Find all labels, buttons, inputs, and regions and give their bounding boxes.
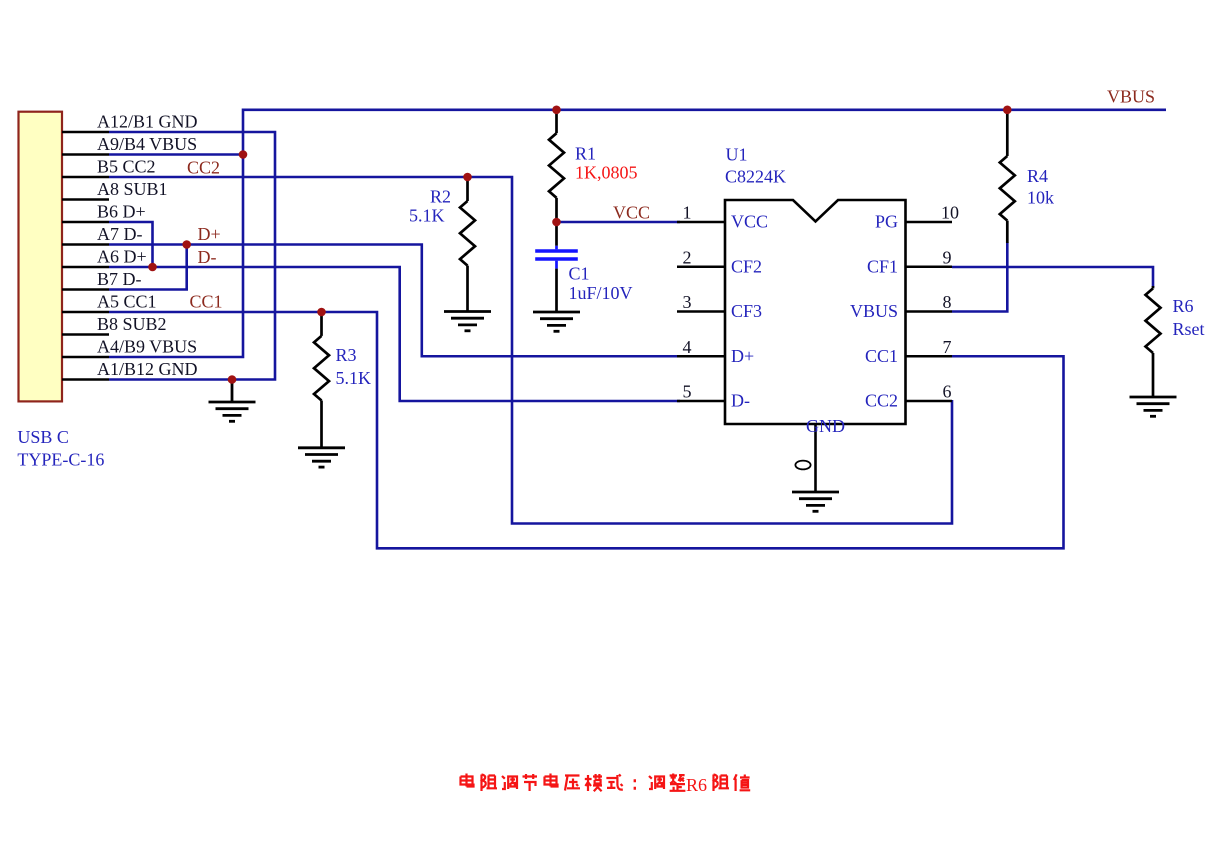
pin A9/B4 VBUS stub	[62, 153, 109, 156]
junction dot VCC/C1	[552, 218, 561, 227]
pin B7 D- stub	[62, 288, 109, 291]
pin 6 stub	[906, 400, 953, 403]
pin 8 stub	[906, 310, 953, 313]
svg-text:R3: R3	[336, 345, 357, 365]
svg-text:TYPE-C-16: TYPE-C-16	[17, 450, 104, 470]
svg-text:B6 D+: B6 D+	[97, 202, 146, 222]
junction dot A9/B4 VBUS	[239, 150, 248, 159]
char zheng	[670, 774, 686, 791]
svg-text:9: 9	[943, 247, 952, 267]
svg-text:A1/B12 GND: A1/B12 GND	[97, 359, 198, 379]
ground at R2	[444, 312, 491, 331]
svg-text:10: 10	[941, 203, 959, 223]
char diao	[502, 776, 517, 789]
wire VBUS pin8 to R4	[952, 242, 1007, 312]
svg-text:A8 SUB1: A8 SUB1	[97, 179, 168, 199]
pin 10 stub	[906, 221, 953, 224]
note red chinese annotation	[461, 774, 751, 792]
svg-text:B7 D-: B7 D-	[97, 269, 142, 289]
svg-text:VBUS: VBUS	[850, 301, 898, 321]
svg-text:R6: R6	[686, 775, 707, 795]
wire VCC net	[557, 221, 681, 224]
svg-text:CC1: CC1	[865, 346, 898, 366]
svg-text:CC2: CC2	[187, 158, 220, 178]
wire VBUS vertical to connector pins	[109, 109, 243, 358]
char dian	[545, 774, 558, 787]
junction dot D+ net	[182, 240, 191, 249]
wire D+ net	[109, 245, 680, 357]
resistor R6	[1146, 286, 1161, 397]
svg-text:A7 D-: A7 D-	[97, 224, 143, 244]
svg-text:VCC: VCC	[613, 203, 650, 223]
resistor R3	[314, 312, 329, 448]
wire CC1 net	[109, 312, 1064, 548]
svg-text:5: 5	[683, 382, 692, 402]
pin A8 SUB1 stub	[62, 198, 109, 201]
pin 1 stub	[677, 221, 725, 224]
svg-text:1uF/10V: 1uF/10V	[569, 283, 633, 303]
pin A6 D+ stub	[62, 266, 109, 269]
wire B7 D- jog	[109, 245, 187, 290]
pin 0 GND stub	[814, 424, 817, 492]
svg-text:A12/B1 GND: A12/B1 GND	[97, 112, 198, 132]
char zu	[482, 775, 498, 792]
pin A7 D- stub	[62, 243, 109, 246]
svg-text:8: 8	[943, 292, 952, 312]
svg-text:4: 4	[683, 337, 692, 357]
pin 3 stub	[677, 310, 725, 313]
svg-text:A9/B4 VBUS: A9/B4 VBUS	[97, 134, 197, 154]
svg-text:1: 1	[683, 203, 692, 223]
char mo	[585, 774, 602, 791]
svg-text:D+: D+	[731, 346, 754, 366]
svg-text:B5 CC2: B5 CC2	[97, 157, 156, 177]
wire A9/B4 VBUS row	[109, 153, 244, 156]
pin B6 D+ stub	[62, 221, 109, 224]
svg-text:CF3: CF3	[731, 301, 762, 321]
pin A1/B12 GND stub	[62, 378, 109, 381]
pin A12/B1 GND stub	[62, 131, 109, 134]
svg-text:R1: R1	[575, 144, 596, 164]
ground at connector GND net	[209, 380, 256, 422]
char shi	[606, 774, 622, 789]
wire D- net	[109, 267, 680, 401]
svg-text:3: 3	[683, 292, 692, 312]
svg-text:VBUS: VBUS	[1107, 87, 1155, 107]
pin 0 number rotated	[795, 461, 810, 470]
pin 7 stub	[906, 355, 953, 358]
resistor R1	[549, 110, 564, 222]
ground at R6	[1130, 397, 1177, 416]
svg-text:D-: D-	[198, 247, 217, 267]
svg-text:USB C: USB C	[17, 427, 69, 447]
pin A5 CC1 stub	[62, 311, 109, 314]
svg-text:R2: R2	[430, 187, 451, 207]
svg-text:7: 7	[943, 337, 952, 357]
svg-text:R4: R4	[1027, 166, 1048, 186]
svg-text:CF1: CF1	[867, 256, 898, 276]
svg-text:6: 6	[943, 382, 952, 402]
svg-text:A4/B9 VBUS: A4/B9 VBUS	[97, 337, 197, 357]
wire CF1 pin9 to R6	[952, 267, 1153, 287]
ground at R3	[298, 448, 345, 467]
svg-text:CC2: CC2	[865, 391, 898, 411]
ground at U1 GND	[792, 492, 839, 511]
svg-text:R6: R6	[1173, 296, 1194, 316]
svg-text:5.1K: 5.1K	[409, 206, 445, 226]
resistor R4	[1000, 110, 1015, 243]
svg-text:5.1K: 5.1K	[336, 368, 372, 388]
pin 9 stub	[906, 265, 953, 268]
wire GND loop	[109, 132, 275, 380]
pin B8 SUB2 stub	[62, 333, 109, 336]
junction dot D- net	[148, 263, 157, 272]
connector J USB C body	[19, 112, 63, 402]
pin 4 stub	[677, 355, 725, 358]
char diao	[649, 776, 664, 789]
svg-text:1K,0805: 1K,0805	[575, 163, 638, 183]
svg-text:C1: C1	[569, 264, 590, 284]
pin 5 stub	[677, 400, 725, 403]
svg-text:B8 SUB2: B8 SUB2	[97, 314, 167, 334]
wire CC2 net	[109, 177, 952, 524]
svg-text:Rset: Rset	[1173, 319, 1205, 339]
wire B6 D+ jog	[109, 222, 153, 267]
svg-text:A5 CC1: A5 CC1	[97, 292, 157, 312]
char dian	[461, 774, 474, 787]
svg-text:A6 D+: A6 D+	[97, 247, 147, 267]
pin B5 CC2 stub	[62, 176, 109, 179]
svg-text:GND: GND	[806, 416, 845, 436]
svg-text:CC1: CC1	[190, 292, 223, 312]
wire VBUS top rail	[243, 109, 1166, 112]
capacitor C1	[535, 222, 578, 312]
junction dot VBUS/R1	[552, 106, 561, 115]
svg-text:2: 2	[683, 247, 692, 267]
svg-text:U1: U1	[726, 145, 748, 165]
char fullwidth colon	[634, 781, 636, 789]
char zhi	[734, 774, 750, 791]
pin 2 stub	[677, 265, 725, 268]
char zu	[714, 775, 730, 792]
resistor R2	[460, 177, 475, 311]
svg-text:PG: PG	[875, 212, 898, 232]
pin A4/B9 VBUS stub	[62, 356, 109, 359]
svg-text:C8224K: C8224K	[725, 167, 786, 187]
svg-text:D+: D+	[198, 224, 221, 244]
op-amp U1 IC body C8224K	[725, 200, 906, 424]
char jie	[523, 774, 538, 791]
junction dot GND net	[228, 375, 237, 384]
svg-text:VCC: VCC	[731, 212, 768, 232]
svg-text:D-: D-	[731, 391, 750, 411]
char ya	[565, 776, 580, 791]
junction dot VBUS/R4	[1003, 106, 1012, 115]
svg-text:10k: 10k	[1027, 188, 1054, 208]
ground at C1	[533, 312, 580, 331]
svg-text:CF2: CF2	[731, 256, 762, 276]
junction dot CC1/R3	[317, 308, 326, 317]
junction dot CC2/R2	[463, 173, 472, 182]
